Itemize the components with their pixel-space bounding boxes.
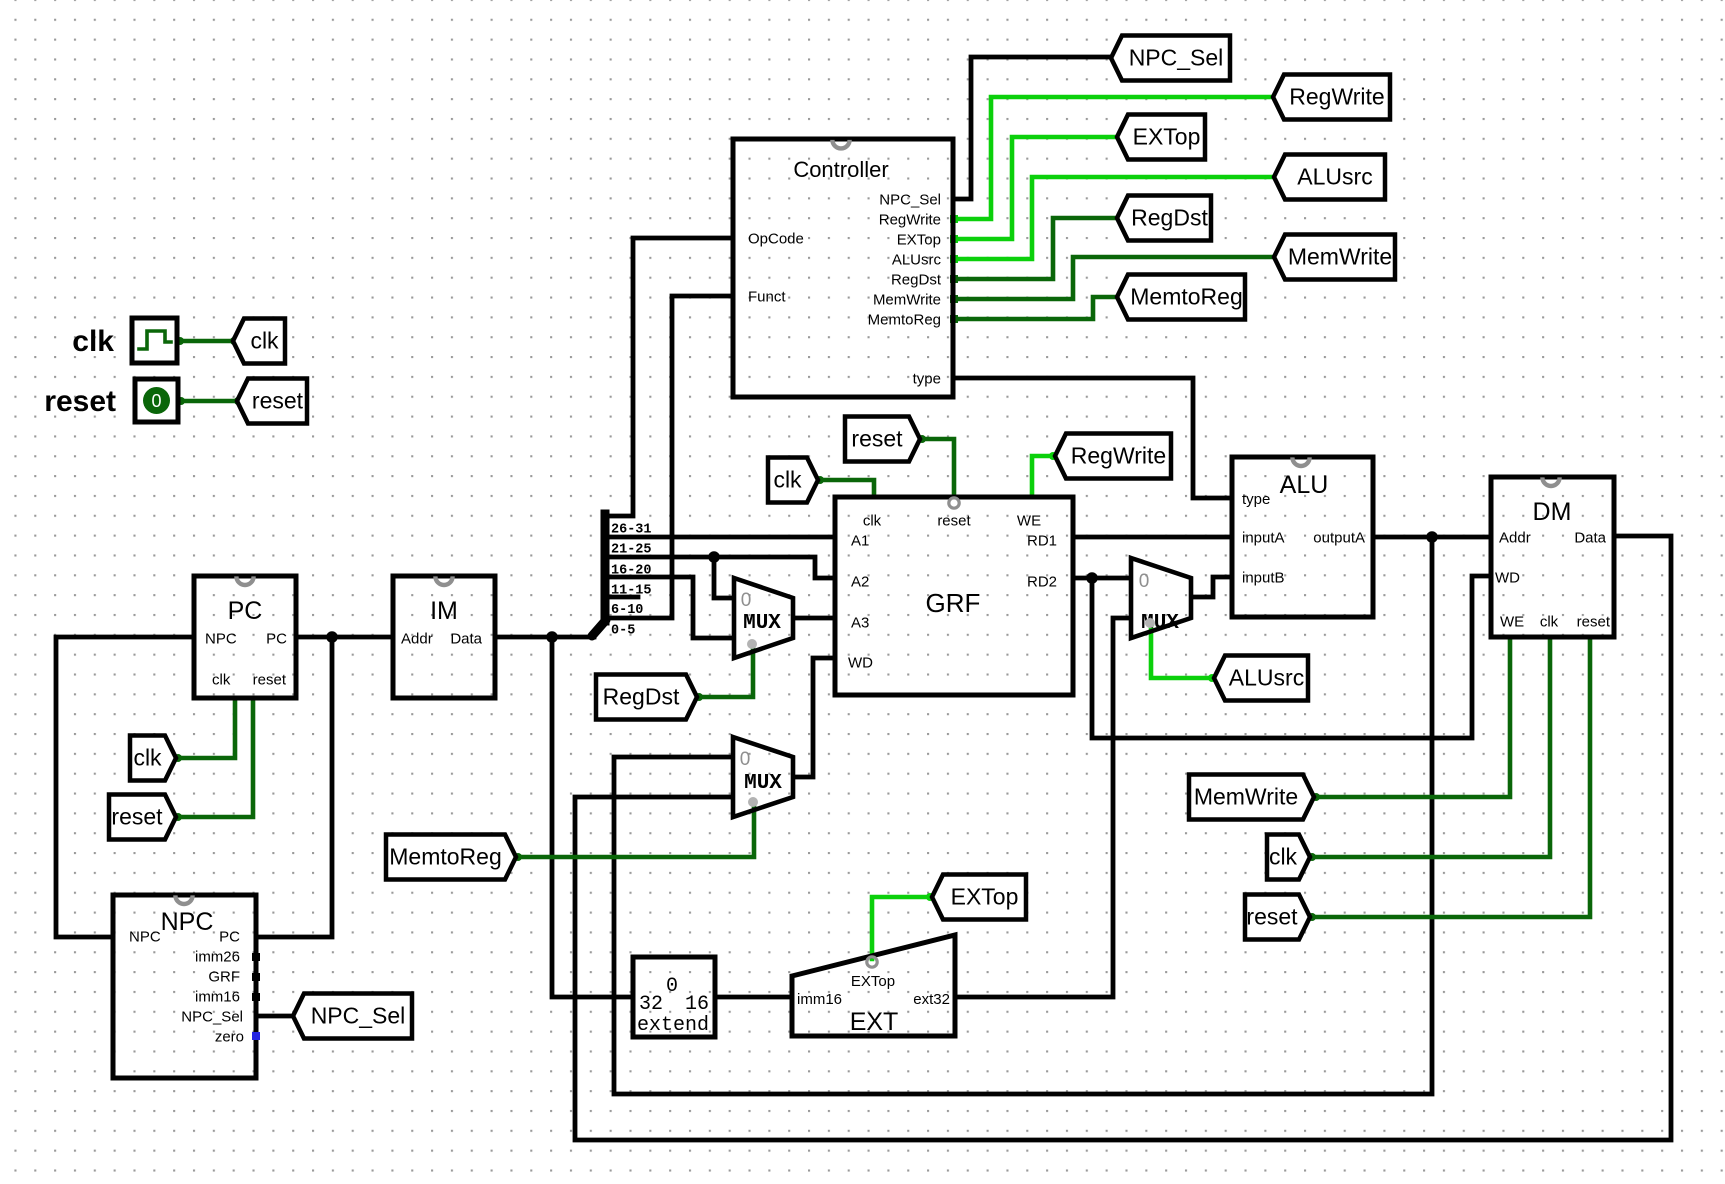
wire MUX3 output to ALU.inputB bbox=[1193, 577, 1230, 597]
svg-text:0-5: 0-5 bbox=[611, 624, 635, 639]
multiplexer MUX2 (MemtoReg) bbox=[733, 737, 793, 817]
tunnel MemWrite (at DM) bbox=[1189, 775, 1314, 820]
wire MUX1 output to GRF.A3 bbox=[795, 616, 833, 621]
svg-text:RegWrite: RegWrite bbox=[1071, 443, 1166, 469]
splitter spine bbox=[601, 514, 610, 621]
wire GRF.RD2 to MUX3 input 0 bbox=[1075, 576, 1129, 581]
tunnel MemtoReg (from controller) bbox=[1117, 275, 1245, 320]
wire MemWrite tunnel to DM.WE bbox=[1316, 640, 1510, 797]
tunnel RegWrite (from controller) bbox=[1273, 75, 1390, 120]
node clk tag tip bbox=[230, 337, 238, 345]
svg-text:NPC: NPC bbox=[161, 908, 214, 936]
node ctrl regdst pin bbox=[950, 275, 958, 283]
svg-text:clk: clk bbox=[863, 513, 882, 530]
svg-text:MemtoReg: MemtoReg bbox=[389, 844, 501, 870]
svg-text:Funct: Funct bbox=[748, 289, 786, 306]
wire splitter 11-15 to MUX1 input 1 bbox=[605, 577, 732, 638]
svg-text:0: 0 bbox=[666, 975, 678, 998]
svg-text:ALUsrc: ALUsrc bbox=[892, 252, 942, 269]
node memtoreg tip bbox=[514, 853, 522, 861]
svg-text:NPC: NPC bbox=[205, 631, 237, 648]
svg-text:RegWrite: RegWrite bbox=[1289, 84, 1384, 110]
svg-text:0: 0 bbox=[1139, 571, 1150, 592]
svg-text:NPC_Sel: NPC_Sel bbox=[311, 1003, 406, 1029]
wire RD2 down to DM.WD bbox=[1092, 576, 1489, 738]
svg-text:reset: reset bbox=[252, 388, 304, 414]
svg-text:imm16: imm16 bbox=[797, 991, 842, 1008]
wire Controller RegDst to tag bbox=[953, 218, 1114, 279]
wire splitter 6-10 stub (unconnected) bbox=[605, 595, 638, 600]
tunnel EXTop (from controller) bbox=[1117, 115, 1205, 160]
junction node rt field bbox=[708, 551, 720, 563]
tunnel clk (at PC) bbox=[130, 736, 176, 781]
tunnel ALUsrc (from controller) bbox=[1274, 155, 1385, 200]
junction node PC output bbox=[326, 631, 338, 643]
wire Controller EXTop to tag bbox=[953, 137, 1114, 239]
wire clk tunnel to DM.clk bbox=[1312, 640, 1550, 857]
svg-text:clk: clk bbox=[1540, 614, 1559, 631]
tunnel EXTop (at EXT) bbox=[932, 875, 1026, 920]
svg-text:NPC_Sel: NPC_Sel bbox=[1129, 45, 1224, 71]
svg-text:EXTop: EXTop bbox=[1133, 124, 1201, 150]
svg-text:MUX: MUX bbox=[744, 772, 782, 795]
tunnel RegDst (from controller) bbox=[1117, 196, 1211, 241]
svg-text:ALUsrc: ALUsrc bbox=[1297, 164, 1372, 190]
svg-text:type: type bbox=[913, 371, 941, 388]
wire bit-extender output to EXT.imm16 bbox=[717, 995, 790, 1000]
svg-text:Data: Data bbox=[1574, 530, 1606, 547]
svg-text:WD: WD bbox=[1495, 570, 1520, 587]
wire PC feedback: NPC output to PC.NPC input bbox=[56, 637, 192, 937]
svg-text:reset: reset bbox=[851, 426, 903, 452]
tunnel RegWrite (at GRF) bbox=[1055, 434, 1171, 479]
wire ALU result loop to MUX2 input 0 bbox=[614, 539, 1432, 1094]
wire splitter 21-25 to GRF.A1 bbox=[605, 535, 833, 540]
wire Controller RegWrite to tag bbox=[953, 97, 1271, 219]
node extop tip bbox=[926, 893, 934, 901]
svg-text:MemtoReg: MemtoReg bbox=[1130, 284, 1242, 310]
wire ALU.outputA to DM.Addr bbox=[1375, 535, 1489, 540]
svg-text:ALUsrc: ALUsrc bbox=[1229, 665, 1304, 691]
wire clk tunnel to PC.clk bbox=[178, 701, 235, 758]
node reset tag tip bbox=[234, 397, 242, 405]
subcircuit GRF (register file) bbox=[835, 497, 1073, 695]
wire EXTop tunnel to EXT.EXTop bbox=[872, 897, 930, 959]
wire reset tunnel to GRF.reset bbox=[922, 439, 954, 493]
svg-text:PC: PC bbox=[219, 929, 240, 946]
node ctrl memtoreg pin bbox=[950, 315, 958, 323]
svg-text:RegWrite: RegWrite bbox=[879, 212, 941, 229]
node reset dm tip bbox=[1308, 913, 1316, 921]
tunnel MemWrite (from controller) bbox=[1274, 235, 1395, 280]
svg-text:EXTop: EXTop bbox=[951, 884, 1019, 910]
wire RegDst tunnel to MUX1 select bbox=[699, 646, 753, 697]
svg-text:A2: A2 bbox=[851, 574, 869, 591]
subcircuit DM (data memory) bbox=[1491, 477, 1614, 637]
node clk dm tip bbox=[1308, 853, 1316, 861]
wire MUX2 output to GRF.WD bbox=[795, 658, 833, 777]
svg-text:type: type bbox=[1242, 491, 1270, 508]
junction node ALU result bbox=[1426, 531, 1438, 543]
subcircuit EXT (sign extender) bbox=[792, 935, 955, 1036]
node reset pc tip bbox=[174, 813, 182, 821]
svg-text:DM: DM bbox=[1533, 498, 1572, 526]
tunnel clk (top left) bbox=[233, 319, 285, 364]
node reset grf tip bbox=[918, 435, 926, 443]
tunnel reset (at DM) bbox=[1245, 895, 1310, 940]
svg-text:PC: PC bbox=[266, 631, 287, 648]
multiplexer MUX1 (RegDst) bbox=[734, 578, 793, 658]
svg-text:Addr: Addr bbox=[1499, 530, 1531, 547]
svg-text:inputA: inputA bbox=[1242, 530, 1285, 547]
wire IM.Data output to splitter input bbox=[497, 635, 594, 640]
svg-text:Addr: Addr bbox=[401, 631, 433, 648]
svg-text:16: 16 bbox=[685, 993, 709, 1016]
svg-text:MemtoReg: MemtoReg bbox=[868, 312, 941, 329]
tunnel NPC_Sel (from controller) bbox=[1111, 36, 1230, 81]
svg-text:EXTop: EXTop bbox=[897, 232, 941, 249]
splitter line 26-31 to Controller OpCode bbox=[605, 238, 731, 516]
svg-text:inputB: inputB bbox=[1242, 570, 1285, 587]
wire splitter 16-20 to jog to GRF.A2 bbox=[605, 557, 833, 578]
tunnel ALUsrc (at MUX3) bbox=[1214, 656, 1308, 701]
svg-text:Data: Data bbox=[450, 631, 482, 648]
node ctrl extop pin bbox=[950, 235, 958, 243]
svg-text:reset: reset bbox=[1246, 904, 1298, 930]
svg-text:0: 0 bbox=[741, 590, 752, 611]
svg-text:EXTop: EXTop bbox=[851, 973, 895, 990]
wire reset tunnel to PC.reset bbox=[178, 701, 253, 817]
wire ALUsrc tunnel to MUX3 select bbox=[1151, 624, 1212, 678]
wire rt field down to MUX1 input 0 bbox=[714, 559, 732, 598]
multiplexer MUX3 (ALUsrc) bbox=[1131, 558, 1191, 638]
svg-text:clk: clk bbox=[72, 325, 114, 358]
svg-text:PC: PC bbox=[228, 597, 263, 625]
svg-text:imm16: imm16 bbox=[195, 989, 240, 1006]
svg-text:reset: reset bbox=[253, 672, 287, 689]
input pin clk (clock) bbox=[132, 318, 177, 363]
tunnel reset (at GRF) bbox=[845, 417, 920, 462]
svg-text:RegDst: RegDst bbox=[891, 272, 942, 289]
svg-text:NPC: NPC bbox=[129, 929, 161, 946]
svg-text:MUX: MUX bbox=[743, 612, 781, 635]
node reset pin bbox=[177, 397, 185, 405]
svg-text:GRF: GRF bbox=[926, 588, 981, 618]
svg-text:ALU: ALU bbox=[1280, 471, 1329, 499]
svg-text:clk: clk bbox=[773, 467, 802, 493]
node clk pc tip bbox=[174, 754, 182, 762]
tunnel reset (top left) bbox=[237, 379, 307, 424]
svg-text:reset: reset bbox=[937, 513, 971, 530]
tunnel clk (at GRF) bbox=[768, 458, 818, 503]
node regwrite grf tip bbox=[1049, 452, 1057, 460]
node clk grf tip bbox=[816, 476, 824, 484]
wire NPC.NPC_Sel to tag bbox=[258, 1014, 290, 1019]
junction node RD2 bbox=[1086, 572, 1098, 584]
node ctrl memwrite pin bbox=[950, 295, 958, 303]
svg-text:MemWrite: MemWrite bbox=[1194, 784, 1298, 810]
wire Controller type output to ALU.type bbox=[953, 378, 1230, 498]
svg-text:zero: zero bbox=[215, 1029, 244, 1046]
wire clk input pin to clk tunnel bbox=[179, 339, 230, 344]
wire reset input pin to reset tunnel bbox=[180, 399, 234, 404]
svg-text:32: 32 bbox=[639, 993, 663, 1016]
wire GRF.RD1 to ALU.inputA bbox=[1075, 535, 1230, 540]
svg-text:clk: clk bbox=[133, 745, 162, 771]
svg-text:RegDst: RegDst bbox=[603, 684, 680, 710]
node ctrl regwrite pin bbox=[950, 215, 958, 223]
subcircuit NPC (next PC) bbox=[113, 895, 256, 1078]
tunnel RegDst (at MUX1) bbox=[596, 675, 697, 720]
svg-text:reset: reset bbox=[44, 385, 116, 418]
svg-text:0: 0 bbox=[151, 391, 161, 411]
svg-text:EXT: EXT bbox=[850, 1008, 899, 1036]
svg-text:ext32: ext32 bbox=[913, 991, 950, 1008]
component bit extender (32/16 extend) bbox=[633, 957, 715, 1037]
svg-text:OpCode: OpCode bbox=[748, 231, 804, 248]
wire Controller NPC_Sel output to tag bbox=[953, 57, 1108, 199]
input pin reset (value 0) bbox=[135, 379, 178, 422]
svg-text:RD1: RD1 bbox=[1027, 533, 1057, 550]
svg-text:reset: reset bbox=[111, 804, 163, 830]
wire clk tunnel to GRF.clk bbox=[820, 480, 874, 495]
node ctrl alusrc pin bbox=[950, 255, 958, 263]
wire PC output down to NPC.PC input bbox=[258, 639, 332, 937]
svg-text:A1: A1 bbox=[851, 533, 869, 550]
tunnel reset (at PC) bbox=[109, 795, 176, 840]
svg-text:clk: clk bbox=[250, 328, 279, 354]
svg-text:RD2: RD2 bbox=[1027, 574, 1057, 591]
wire PC.PC output to IM.Addr bbox=[298, 635, 391, 640]
svg-text:WE: WE bbox=[1017, 513, 1041, 530]
subcircuit PC (program counter) bbox=[194, 576, 296, 698]
subcircuit ALU bbox=[1232, 457, 1373, 617]
wire Controller ALUsrc to tag bbox=[953, 177, 1271, 259]
wire RegWrite tunnel to GRF.WE bbox=[1032, 456, 1053, 495]
node regdst tip bbox=[695, 693, 703, 701]
wire Controller MemtoReg to tag bbox=[953, 297, 1114, 319]
svg-text:IM: IM bbox=[430, 597, 458, 625]
svg-text:clk: clk bbox=[1269, 844, 1298, 870]
svg-text:reset: reset bbox=[1577, 614, 1611, 631]
junction node instruction bus bbox=[546, 631, 558, 643]
svg-text:MemWrite: MemWrite bbox=[1288, 244, 1392, 270]
wire EXT.ext32 to MUX3 input 1 bbox=[957, 618, 1129, 997]
tunnel MemtoReg (at MUX2) bbox=[386, 835, 516, 880]
svg-text:Controller: Controller bbox=[793, 157, 888, 182]
wire instruction down to bit-extender input bbox=[552, 639, 631, 997]
wire splitter 0-5 to Controller Funct bbox=[605, 296, 731, 618]
subcircuit IM (instruction memory) bbox=[393, 576, 495, 698]
svg-text:0: 0 bbox=[740, 749, 751, 770]
svg-text:WD: WD bbox=[848, 655, 873, 672]
svg-text:clk: clk bbox=[212, 672, 231, 689]
svg-text:imm26: imm26 bbox=[195, 949, 240, 966]
node memwrite tip bbox=[1312, 793, 1320, 801]
svg-text:A3: A3 bbox=[851, 615, 869, 632]
node alusrc tip bbox=[1208, 674, 1216, 682]
svg-text:RegDst: RegDst bbox=[1131, 205, 1208, 231]
subcircuit Controller U1 bbox=[733, 139, 953, 397]
wire MemtoReg tunnel to MUX2 select bbox=[518, 803, 754, 857]
svg-text:WE: WE bbox=[1500, 614, 1524, 631]
node clk pin bbox=[176, 337, 184, 345]
wire reset tunnel to DM.reset bbox=[1312, 640, 1590, 917]
tunnel clk (at DM) bbox=[1267, 835, 1310, 880]
svg-text:GRF: GRF bbox=[208, 969, 240, 986]
svg-text:outputA: outputA bbox=[1313, 530, 1365, 547]
svg-text:NPC_Sel: NPC_Sel bbox=[181, 1009, 243, 1026]
splitter input diagonal bbox=[592, 620, 606, 636]
svg-text:extend: extend bbox=[637, 1014, 709, 1037]
svg-text:MemWrite: MemWrite bbox=[873, 292, 941, 309]
tunnel NPC_Sel (at NPC) bbox=[293, 994, 412, 1039]
svg-text:NPC_Sel: NPC_Sel bbox=[879, 192, 941, 209]
wire Controller MemWrite to tag bbox=[953, 257, 1271, 299]
node NPC.zero unconnected (blue) bbox=[252, 1032, 260, 1040]
wire DM.Data loop to MUX2 input 1 bbox=[575, 536, 1671, 1140]
